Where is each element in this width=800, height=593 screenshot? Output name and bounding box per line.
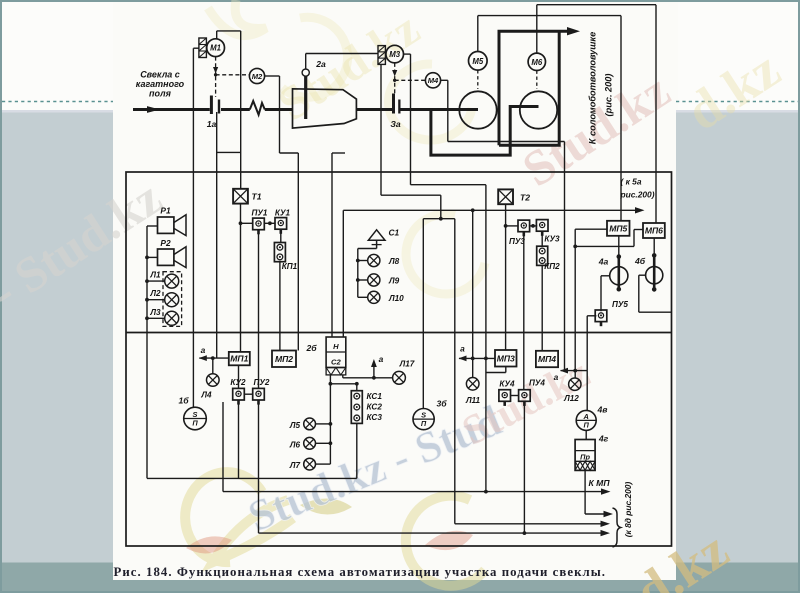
outer panel box xyxy=(126,172,672,546)
dashed link M3 to M4 xyxy=(395,79,426,81)
fuse box 4g xyxy=(585,430,587,439)
svg-text:КС2: КС2 xyxy=(367,403,383,412)
wire: row D from x=223 xyxy=(222,402,224,492)
dashed M5 to pump1 xyxy=(477,70,479,89)
actuator hatch box of M1 xyxy=(199,38,207,58)
actuator hatch box of M3 xyxy=(378,46,385,65)
motor M3 xyxy=(386,45,404,63)
wire: conveyor line to indicator 1b (column x=193) xyxy=(192,48,194,407)
wire: T2 stem down to MP3 xyxy=(505,204,507,350)
svg-text:За: За xyxy=(390,119,401,129)
wire: M5 over the top to MP5 xyxy=(477,16,479,52)
svg-text:( к 5а: ( к 5а xyxy=(621,177,642,187)
svg-text:КП2: КП2 xyxy=(544,262,560,271)
svg-text:МП1: МП1 xyxy=(230,354,248,364)
svg-text:Л2: Л2 xyxy=(149,289,161,298)
button PU2 xyxy=(253,388,265,400)
dashed stem M3 to gate 3a xyxy=(394,63,396,94)
gate 3a bars xyxy=(392,94,395,114)
lamp L5 xyxy=(304,418,316,430)
wire ladder to 3b and row E xyxy=(423,218,455,220)
svg-text:а: а xyxy=(201,345,206,355)
zigzag break symbol on flow line xyxy=(250,101,265,115)
svg-text:Т1: Т1 xyxy=(252,192,262,202)
svg-text:МП5: МП5 xyxy=(609,223,627,233)
thick pipe rectangle with discharge xyxy=(499,31,571,145)
svg-text:Л5: Л5 xyxy=(289,421,301,430)
svg-text:КУ1: КУ1 xyxy=(275,209,291,218)
wire: PU2 down to row F xyxy=(258,400,260,533)
signal bus with arrow to 5a xyxy=(343,209,636,211)
wire: 4a left to PU5 xyxy=(601,275,610,277)
discharge arrowhead xyxy=(567,27,580,35)
relay box KC1 KC2 KC3 xyxy=(351,391,362,424)
hatch band of 2b xyxy=(326,368,346,375)
wire: KU2 tick to inner loop xyxy=(238,400,240,479)
valve 4b xyxy=(653,238,655,255)
pump 1 circle xyxy=(459,91,496,128)
svg-text:М3: М3 xyxy=(389,50,400,59)
svg-text:(рис. 200): (рис. 200) xyxy=(604,74,614,117)
wire: MP6 left to dot xyxy=(634,229,643,231)
wire: funnel column to 2b xyxy=(331,153,333,337)
lamp L10 xyxy=(368,291,380,303)
svg-text:КУ3: КУ3 xyxy=(544,235,560,244)
speaker P2 xyxy=(158,249,174,265)
brace and label k 8d ris.200 xyxy=(613,508,621,547)
svg-text:КП1: КП1 xyxy=(282,262,298,271)
wire: M6 over the top to MP6 xyxy=(536,5,538,53)
wire: PU5 left down to junction a3 xyxy=(587,315,596,317)
washer funnel body xyxy=(293,89,357,128)
button KU1 xyxy=(275,218,287,230)
gate 1a bars xyxy=(210,96,213,115)
motor M1 xyxy=(207,39,225,57)
svg-text:ПУ4: ПУ4 xyxy=(529,379,545,388)
indicator M4 xyxy=(425,73,440,88)
wire: bus drop to 2b right xyxy=(342,210,344,337)
wire: 4b left to panel edge xyxy=(639,274,646,276)
lamp L17 xyxy=(393,371,406,384)
conveyor channel right wall / wire to T1 xyxy=(240,31,242,189)
svg-text:ПУ1: ПУ1 xyxy=(252,209,268,218)
wire: join down to junction a3 xyxy=(574,246,576,370)
wire: flow line segment 5 gate 3a to pump M5 xyxy=(401,108,479,111)
svg-text:Л6: Л6 xyxy=(289,440,301,449)
contactor KP2 xyxy=(537,246,548,265)
wire: 2b to lamp bus xyxy=(329,375,331,464)
wire: 2a up and over xyxy=(305,54,307,70)
button KU3 xyxy=(536,220,548,232)
indicator 3b xyxy=(413,409,434,430)
ammeter 4v xyxy=(586,371,588,411)
starter MP4 xyxy=(536,351,558,367)
button KU4 xyxy=(499,390,511,402)
svg-text:Л8: Л8 xyxy=(388,257,400,266)
svg-text:Л11: Л11 xyxy=(465,396,481,405)
svg-text:рис.200): рис.200) xyxy=(620,190,655,200)
button PU3 xyxy=(518,220,530,232)
svg-text:Р1: Р1 xyxy=(160,206,171,216)
button KU2 xyxy=(233,388,245,400)
svg-text:4в: 4в xyxy=(597,405,608,415)
wire: M4 around pumps to junction a2 (x=447.8 -> 564.5) xyxy=(441,79,448,81)
dashed stem M1 to gate 1a xyxy=(215,57,217,97)
lamp L8 xyxy=(368,254,380,266)
wire: flow line segment 2 xyxy=(221,108,250,111)
svg-text:ПУ3: ПУ3 xyxy=(509,237,525,246)
button PU1 xyxy=(253,218,265,230)
svg-text:(к 8д рис.200): (к 8д рис.200) xyxy=(623,482,633,538)
dashed M6 to pump2 xyxy=(536,71,538,90)
svg-text:Л1: Л1 xyxy=(149,270,161,279)
wire: row E from ladder xyxy=(455,523,602,525)
lamp L11 xyxy=(466,378,479,391)
svg-text:Л9: Л9 xyxy=(388,277,400,286)
wire: KU1 down to KP1 xyxy=(280,229,282,242)
svg-text:Л12: Л12 xyxy=(563,394,579,403)
svg-text:2б: 2б xyxy=(305,343,317,353)
sensor T1 crossed square xyxy=(233,189,248,204)
wire: flow line segment 4 washer to gate 3a xyxy=(356,108,392,111)
svg-text:а: а xyxy=(460,344,465,354)
svg-text:М1: М1 xyxy=(210,44,221,53)
lamp L1 xyxy=(165,274,179,288)
svg-text:4б: 4б xyxy=(634,256,646,266)
svg-text:МП2: МП2 xyxy=(275,354,293,364)
lamp L9 xyxy=(368,274,380,286)
svg-text:Р2: Р2 xyxy=(160,238,171,248)
wire: gate column down to junction a (x=217) xyxy=(216,112,218,358)
speaker P1 xyxy=(158,217,174,233)
lamp L7 xyxy=(304,458,316,470)
node: M3 dashed tee xyxy=(393,79,396,82)
svg-text:КС3: КС3 xyxy=(367,413,383,422)
svg-text:а: а xyxy=(554,372,559,382)
junction a3 row xyxy=(561,370,588,372)
valve 4a xyxy=(618,236,620,257)
svg-text:4г: 4г xyxy=(598,434,609,444)
svg-text:К соломоботволовушке: К соломоботволовушке xyxy=(588,32,598,144)
lamp L6 xyxy=(304,437,316,449)
svg-text:П: П xyxy=(192,419,198,428)
element 2b H C2 xyxy=(326,337,346,368)
svg-text:Свекла с: Свекла с xyxy=(140,70,180,80)
node: row D junction at M3 column xyxy=(484,490,488,494)
wire: 2b to KC box xyxy=(330,383,356,385)
wire: KU2-PU2 link xyxy=(244,393,252,395)
wire: MP5 left to dot xyxy=(575,228,607,230)
lamp L4 xyxy=(212,358,214,374)
svg-text:Л7: Л7 xyxy=(289,461,301,470)
panel divider line xyxy=(126,332,672,334)
svg-text:ПУ2: ПУ2 xyxy=(254,378,270,387)
svg-text:С2: С2 xyxy=(331,357,341,366)
wire: tee to PU1 KU1 xyxy=(241,222,253,224)
wire: L11 tap from bus xyxy=(472,210,474,377)
lamp L3 xyxy=(165,311,179,325)
contactor KP1 xyxy=(274,243,285,262)
wire: hatch box column down into panel (x=381) xyxy=(380,64,382,195)
wire: KP1 down to MP2 xyxy=(279,262,281,351)
svg-text:МП6: МП6 xyxy=(645,226,663,236)
starter MP6 xyxy=(643,223,665,238)
wire: PU3 down to PU4 xyxy=(523,232,525,391)
wire: tee to PU3 KU3 xyxy=(506,225,519,227)
siren C1 xyxy=(368,230,385,241)
svg-text:3б: 3б xyxy=(436,399,447,409)
starter MP3 xyxy=(495,350,517,367)
node: MP5/MP6 join xyxy=(573,245,577,249)
svg-text:С1: С1 xyxy=(389,228,400,238)
svg-text:Л4: Л4 xyxy=(200,391,212,400)
svg-text:Л17: Л17 xyxy=(399,360,415,369)
wire: M2 to MP2 (x=279.5,298.3) xyxy=(265,75,280,77)
wire: 2b right corner to L17 xyxy=(342,375,344,378)
svg-text:М5: М5 xyxy=(472,57,483,66)
dashed link M1 stem to M2 xyxy=(216,74,250,76)
svg-text:кагатного: кагатного xyxy=(136,79,185,89)
dashed box around L1-L3 xyxy=(163,272,182,327)
wire: MP3 bottom elbow xyxy=(505,367,507,373)
button PU4 xyxy=(519,390,531,402)
lamp L12 xyxy=(574,371,576,378)
indicator M5 xyxy=(469,52,488,71)
svg-text:Л10: Л10 xyxy=(388,294,404,303)
svg-text:П: П xyxy=(584,420,590,429)
wire: 4g down to K MP arrow xyxy=(584,470,586,514)
indicator 1b xyxy=(184,407,207,430)
tap arrow a at MP3 xyxy=(459,357,495,359)
wire: C1 bus xyxy=(358,248,377,250)
wire: KP2 down to MP4 xyxy=(541,265,543,350)
tap arrow a at MP1 xyxy=(199,357,229,359)
svg-text:П: П xyxy=(421,419,427,428)
svg-text:МП3: МП3 xyxy=(497,353,515,363)
svg-text:Л3: Л3 xyxy=(149,308,161,317)
wire: KU4-PU4 link xyxy=(511,395,519,397)
svg-text:2а: 2а xyxy=(315,59,326,69)
wire: PU1 down to PU2 xyxy=(258,230,260,389)
indicator M2 xyxy=(249,68,264,83)
wire: left bus of P/L cluster xyxy=(147,225,158,227)
svg-text:4а: 4а xyxy=(598,257,609,267)
wire: KU3 down to KP2 xyxy=(541,231,543,246)
node: M1 dashed tee xyxy=(214,73,217,76)
conveyor channel step xyxy=(217,151,241,153)
svg-text:М2: М2 xyxy=(252,72,263,81)
svg-text:1б: 1б xyxy=(178,396,189,406)
pump 2 circle xyxy=(520,91,557,128)
svg-text:МП4: МП4 xyxy=(538,354,556,364)
wire: M3 to MP3 column (x=410.5 then 485.9) xyxy=(404,53,411,55)
starter MP5 xyxy=(607,221,630,236)
svg-text:М4: М4 xyxy=(428,76,439,85)
thick pipe pump1 to pump2 xyxy=(431,107,539,156)
wire: MP1 down to KU2 xyxy=(238,365,240,388)
wire: T1 stem down to MP1 xyxy=(240,204,242,352)
svg-text:а: а xyxy=(379,354,384,364)
gate 2a circle and shaft xyxy=(302,69,309,76)
svg-text:М6: М6 xyxy=(531,58,542,67)
starter MP2 xyxy=(272,351,296,368)
sensor T2 crossed square xyxy=(498,189,513,204)
svg-text:К МП: К МП xyxy=(589,478,611,488)
svg-text:КС1: КС1 xyxy=(367,392,383,401)
svg-text:КУ2: КУ2 xyxy=(230,378,246,387)
starter MP1 xyxy=(229,352,250,365)
wire: PU4 down to row F xyxy=(523,401,525,533)
indicator M6 xyxy=(528,53,545,70)
svg-text:Н: Н xyxy=(333,342,339,351)
conveyor channel cap xyxy=(217,30,241,32)
svg-text:1а: 1а xyxy=(207,119,217,129)
lamp L2 xyxy=(165,293,179,307)
wire: main flow line segment 1 with arrow xyxy=(133,108,210,111)
svg-text:КУ4: КУ4 xyxy=(499,380,515,389)
svg-text:Рис. 184. Функциональная схема: Рис. 184. Функциональная схема автоматиз… xyxy=(114,565,607,579)
wire: flow line segment 3 into washer xyxy=(265,108,293,111)
inner wire loop left/bottom xyxy=(146,226,148,478)
svg-text:Пр: Пр xyxy=(580,452,590,461)
button PU5 xyxy=(595,310,607,322)
svg-text:Т2: Т2 xyxy=(520,192,530,202)
tap arrow a at L17 xyxy=(373,362,375,378)
svg-text:поля: поля xyxy=(149,89,172,99)
svg-text:ПУ5: ПУ5 xyxy=(612,300,628,309)
